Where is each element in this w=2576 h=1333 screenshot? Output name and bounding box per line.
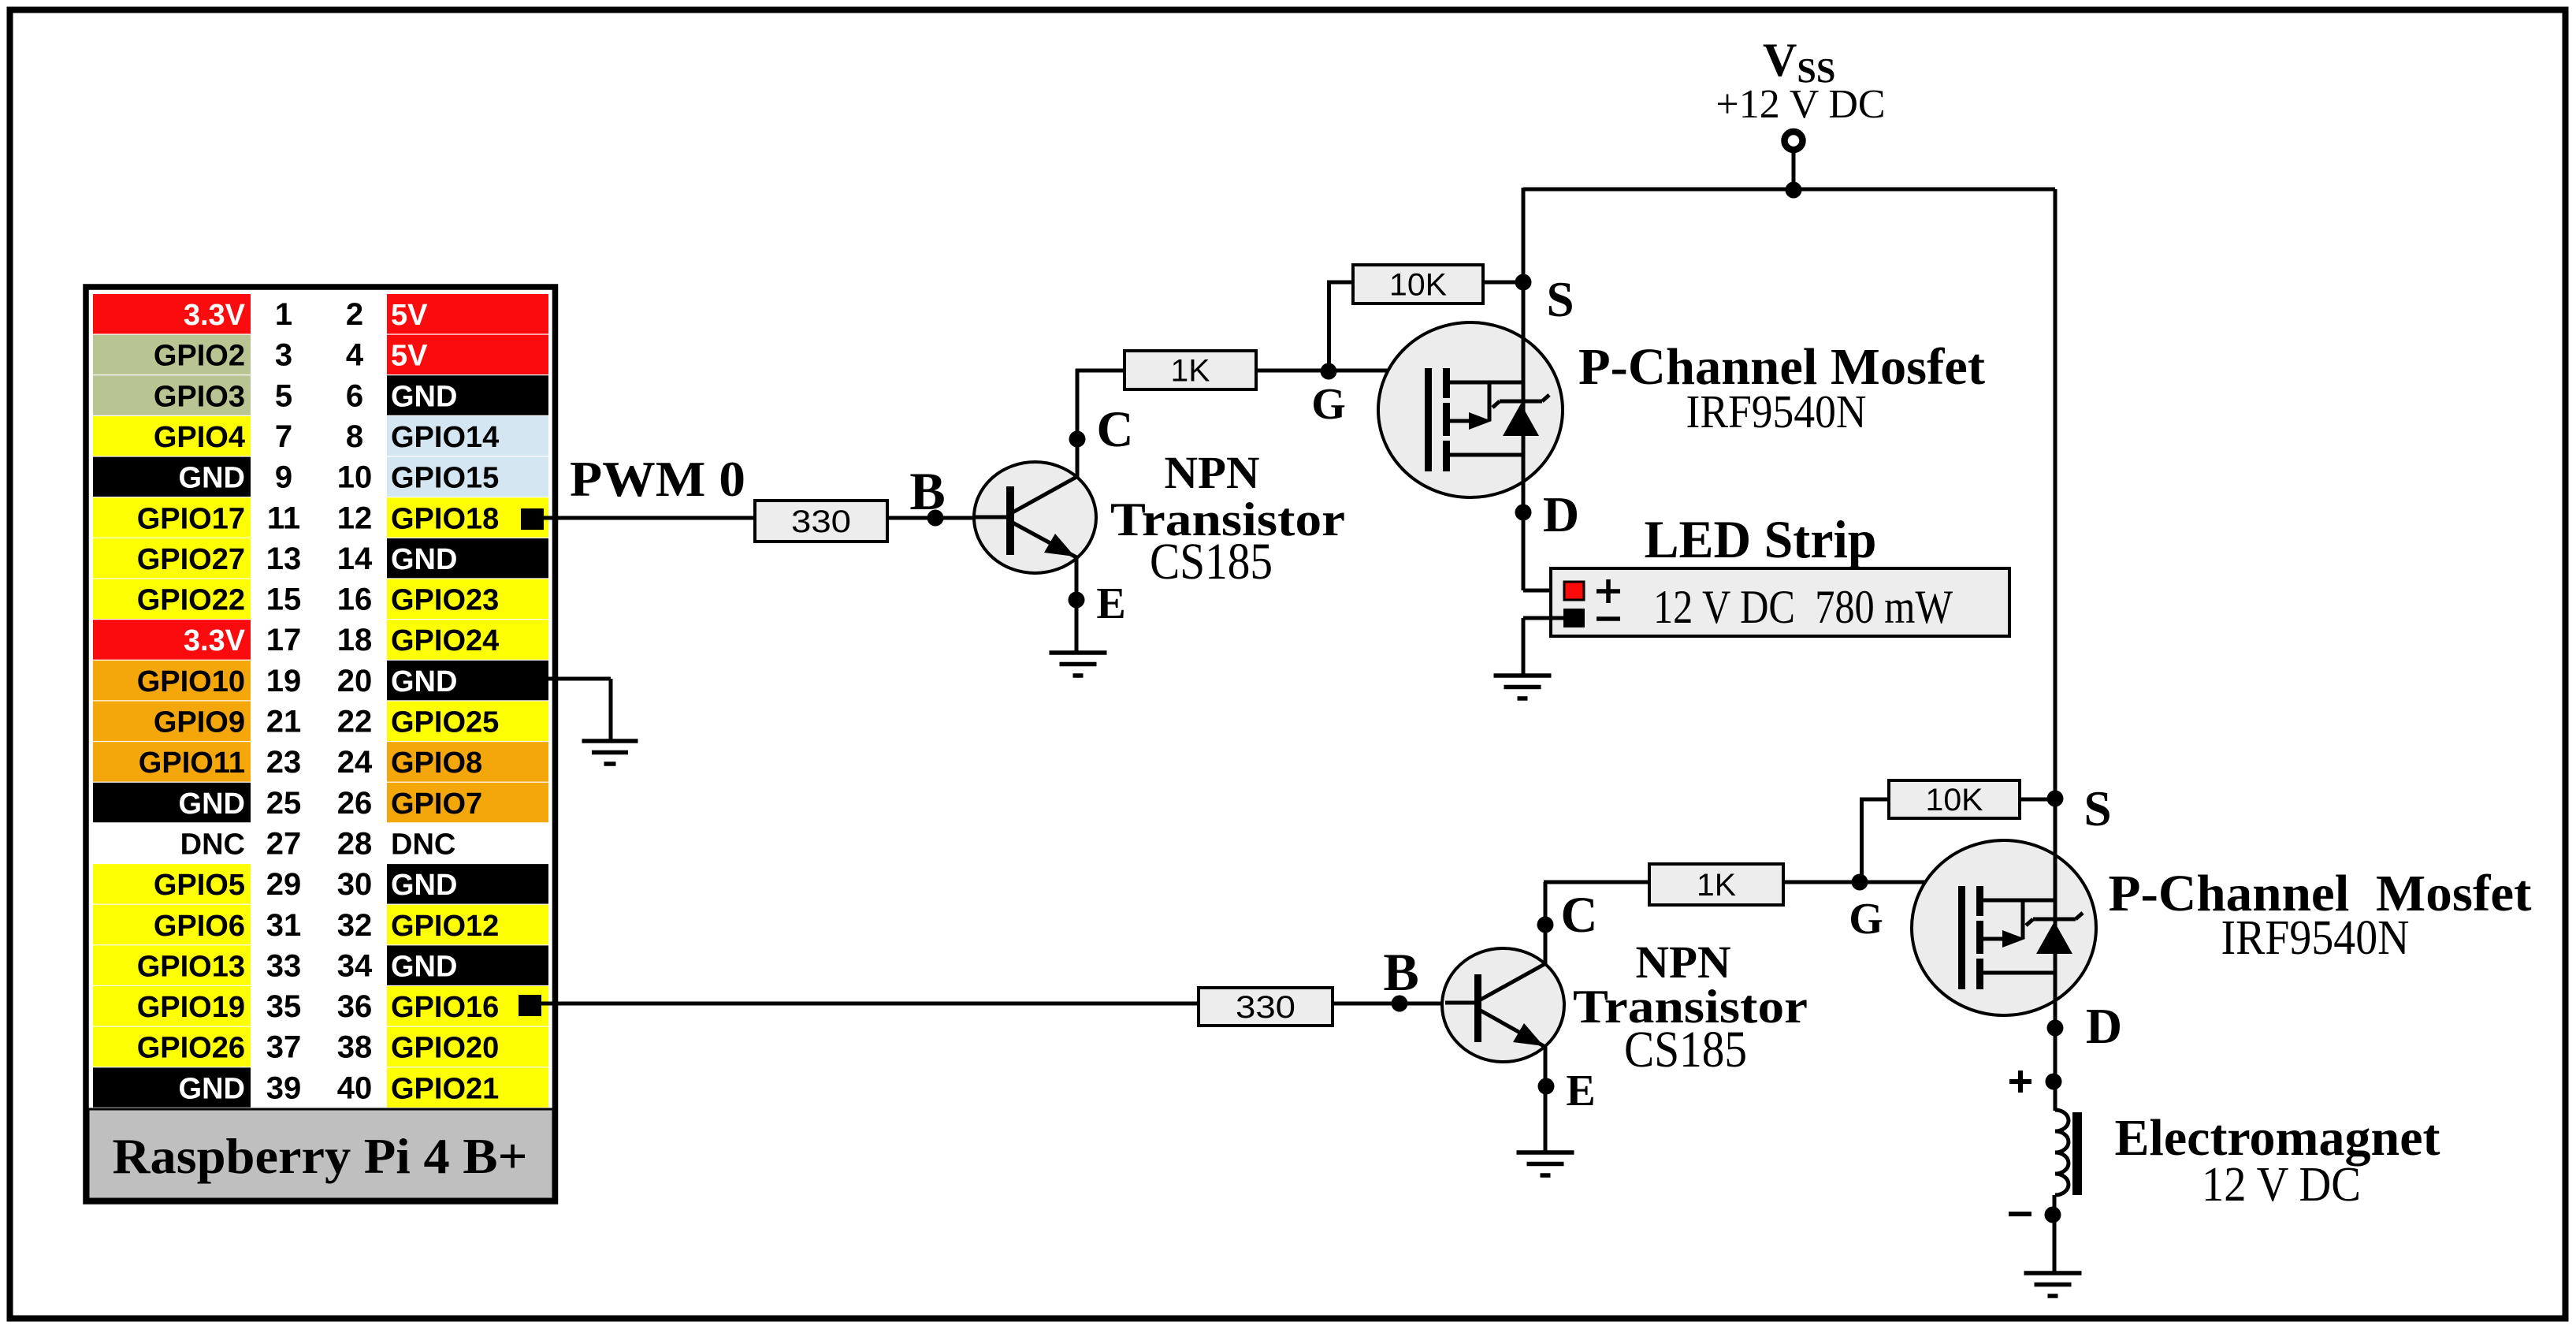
svg-text:1K: 1K bbox=[1697, 868, 1736, 903]
svg-text:2: 2 bbox=[346, 297, 363, 332]
svg-text:18: 18 bbox=[337, 623, 373, 657]
svg-text:PWM 0: PWM 0 bbox=[570, 451, 745, 507]
wire R6 to S2 bbox=[2020, 798, 2055, 802]
svg-text:33: 33 bbox=[266, 948, 302, 983]
svg-text:20: 20 bbox=[337, 664, 373, 698]
svg-text:GPIO15: GPIO15 bbox=[391, 462, 499, 495]
svg-text:C: C bbox=[1561, 887, 1598, 944]
svg-text:4: 4 bbox=[346, 338, 364, 373]
wire LED- to ground bbox=[1523, 616, 1563, 620]
svg-text:GND: GND bbox=[179, 462, 245, 495]
resistor R6 10K bbox=[1889, 780, 2020, 818]
svg-text:D: D bbox=[2086, 998, 2122, 1054]
svg-text:10: 10 bbox=[337, 460, 373, 495]
wire Q2 collector to R5 bbox=[1544, 882, 1548, 965]
node C2 bbox=[1537, 917, 1554, 933]
svg-text:5V: 5V bbox=[391, 340, 428, 373]
wire R3 to S1 bbox=[1483, 281, 1523, 285]
label + polarity electromagnet bbox=[2009, 1079, 2031, 1084]
svg-text:GPIO3: GPIO3 bbox=[154, 380, 245, 413]
ground Q2 emitter bbox=[1517, 1152, 1574, 1175]
svg-text:3.3V: 3.3V bbox=[184, 624, 246, 657]
svg-text:7: 7 bbox=[275, 419, 292, 454]
resistor R1 330 bbox=[755, 501, 887, 542]
svg-text:15: 15 bbox=[266, 583, 302, 617]
wire Q1 collector to R2 bbox=[1076, 369, 1080, 478]
svg-text:CS185: CS185 bbox=[1624, 1021, 1747, 1078]
svg-text:28: 28 bbox=[337, 826, 373, 861]
wire R2 to M1 gate bbox=[1256, 369, 1428, 373]
svg-text:GPIO18: GPIO18 bbox=[391, 502, 499, 535]
svg-text:5V: 5V bbox=[391, 299, 428, 332]
svg-text:G: G bbox=[1849, 895, 1883, 944]
node B1 junction bbox=[927, 510, 944, 527]
svg-text:17: 17 bbox=[266, 623, 302, 657]
svg-text:E: E bbox=[1096, 579, 1125, 628]
svg-text:GPIO27: GPIO27 bbox=[137, 543, 245, 576]
svg-text:GPIO19: GPIO19 bbox=[137, 991, 245, 1024]
resistor R2 1K bbox=[1124, 351, 1256, 389]
svg-text:GPIO22: GPIO22 bbox=[137, 584, 245, 617]
svg-text:36: 36 bbox=[337, 989, 373, 1024]
svg-text:GPIO4: GPIO4 bbox=[154, 421, 245, 454]
svg-text:19: 19 bbox=[266, 664, 302, 698]
svg-text:39: 39 bbox=[266, 1070, 302, 1105]
svg-text:G: G bbox=[1311, 380, 1346, 429]
Raspberry Pi 4 B+ GPIO header pin table bbox=[93, 294, 548, 1108]
svg-text:GPIO6: GPIO6 bbox=[154, 910, 245, 943]
svg-text:GPIO8: GPIO8 bbox=[391, 747, 482, 780]
wire pin12 to R1 bbox=[533, 516, 756, 520]
svg-text:DNC: DNC bbox=[391, 828, 455, 861]
wire S2-D2 main vertical bbox=[2054, 799, 2057, 1028]
svg-text:40: 40 bbox=[337, 1070, 373, 1105]
svg-text:DNC: DNC bbox=[180, 828, 245, 861]
svg-text:GPIO16: GPIO16 bbox=[391, 991, 499, 1024]
svg-text:GPIO10: GPIO10 bbox=[137, 665, 245, 698]
svg-text:S: S bbox=[2083, 781, 2111, 836]
svg-text:B: B bbox=[1383, 942, 1418, 1002]
svg-text:27: 27 bbox=[266, 826, 302, 861]
svg-text:GND: GND bbox=[391, 869, 457, 902]
LED strip - terminal pad bbox=[1563, 609, 1585, 627]
wire G1 up to R3 bbox=[1327, 282, 1331, 372]
P-channel MOSFET M1 IRF9540N bbox=[1378, 322, 1563, 497]
wire M1 gate entry bbox=[1426, 370, 1430, 371]
wire R1 to Q1 base bbox=[887, 516, 974, 520]
wire pin20 GND bbox=[547, 677, 611, 681]
svg-text:16: 16 bbox=[337, 583, 373, 617]
svg-text:12: 12 bbox=[337, 501, 373, 535]
wire Q2 emitter to ground bbox=[1544, 1047, 1548, 1152]
terminal Vss bbox=[1785, 132, 1803, 150]
svg-text:GND: GND bbox=[179, 788, 245, 821]
wire R5 to M2 gate bbox=[1782, 881, 1960, 884]
svg-text:32: 32 bbox=[337, 908, 373, 943]
svg-text:9: 9 bbox=[275, 460, 292, 495]
svg-text:GND: GND bbox=[391, 950, 457, 983]
svg-text:3: 3 bbox=[275, 338, 292, 373]
svg-text:B: B bbox=[909, 461, 945, 521]
svg-text:IRF9540N: IRF9540N bbox=[2221, 911, 2410, 965]
label LED - polarity bbox=[1597, 616, 1620, 621]
svg-text:GPIO11: GPIO11 bbox=[139, 747, 245, 780]
svg-text:GND: GND bbox=[391, 665, 457, 698]
svg-text:21: 21 bbox=[266, 705, 302, 739]
svg-text:10K: 10K bbox=[1389, 268, 1447, 303]
wire Vss stub bbox=[1792, 153, 1796, 190]
node electromagnet - junction bbox=[2045, 1207, 2061, 1223]
wire Vss top rail bbox=[1523, 188, 2055, 192]
node G1 junction bbox=[1321, 363, 1337, 380]
node E1 bbox=[1069, 592, 1085, 609]
svg-text:LED Strip: LED Strip bbox=[1645, 509, 1877, 569]
ground LED strip return bbox=[1494, 676, 1552, 698]
node S1 junction bbox=[1515, 274, 1532, 291]
transistor Q2 NPN CS185 bbox=[1442, 948, 1564, 1062]
svg-text:1: 1 bbox=[275, 297, 292, 332]
svg-text:D: D bbox=[1543, 486, 1579, 542]
svg-text:10K: 10K bbox=[1926, 783, 1983, 817]
svg-text:26: 26 bbox=[337, 786, 373, 821]
node S2 junction bbox=[2047, 791, 2064, 807]
svg-text:GND: GND bbox=[179, 1072, 245, 1105]
svg-text:GPIO12: GPIO12 bbox=[391, 910, 499, 943]
svg-text:8: 8 bbox=[346, 419, 363, 454]
label LED + polarity bbox=[1597, 589, 1620, 594]
pin 12 GPIO18 pad marker bbox=[521, 508, 544, 530]
node Vss junction bbox=[1786, 182, 1802, 199]
node G2 junction bbox=[1852, 874, 1868, 891]
svg-text:GPIO5: GPIO5 bbox=[154, 869, 245, 902]
svg-text:12 V DC 780 mW: 12 V DC 780 mW bbox=[1653, 581, 1953, 633]
P-channel MOSFET M2 IRF9540N bbox=[1912, 840, 2096, 1015]
svg-text:22: 22 bbox=[337, 705, 373, 739]
transistor Q1 NPN CS185 bbox=[974, 462, 1096, 573]
svg-text:23: 23 bbox=[266, 745, 302, 780]
svg-text:30: 30 bbox=[337, 867, 373, 902]
svg-text:S: S bbox=[1546, 272, 1574, 327]
svg-text:E: E bbox=[1566, 1067, 1595, 1115]
ground electromagnet return bbox=[2024, 1273, 2082, 1296]
svg-text:34: 34 bbox=[337, 948, 373, 983]
resistor R4 330 bbox=[1199, 988, 1333, 1026]
svg-text:330: 330 bbox=[1236, 990, 1295, 1025]
svg-text:GPIO25: GPIO25 bbox=[391, 706, 499, 739]
svg-text:GPIO2: GPIO2 bbox=[154, 340, 245, 373]
ground Raspberry Pi GND pin 20 bbox=[582, 741, 638, 764]
svg-text:13: 13 bbox=[266, 542, 302, 576]
node B2 junction bbox=[1392, 996, 1408, 1012]
label - polarity electromagnet bbox=[2009, 1212, 2031, 1216]
Raspberry Pi 4 B+ footer label bbox=[88, 1109, 553, 1199]
svg-text:GPIO24: GPIO24 bbox=[391, 624, 499, 657]
svg-text:37: 37 bbox=[266, 1030, 302, 1065]
svg-text:35: 35 bbox=[266, 989, 302, 1024]
svg-text:+12 V DC: +12 V DC bbox=[1715, 82, 1885, 127]
svg-text:3.3V: 3.3V bbox=[184, 299, 246, 332]
node D1 bbox=[1515, 505, 1532, 521]
pin 36 GPIO16 pad marker bbox=[519, 995, 541, 1016]
node D2 bbox=[2047, 1020, 2064, 1037]
wire R4 to Q2 base bbox=[1333, 1002, 1445, 1006]
svg-text:IRF9540N: IRF9540N bbox=[1686, 385, 1867, 438]
svg-text:Raspberry Pi 4 B+: Raspberry Pi 4 B+ bbox=[113, 1128, 528, 1184]
ground Q1 emitter bbox=[1050, 653, 1107, 676]
svg-text:C: C bbox=[1097, 401, 1134, 458]
svg-text:24: 24 bbox=[337, 745, 373, 780]
wire D1 to LED+ bbox=[1522, 512, 1526, 590]
svg-text:GPIO20: GPIO20 bbox=[391, 1032, 499, 1065]
wire G2 up to R6 bbox=[1860, 799, 1864, 884]
svg-text:GPIO21: GPIO21 bbox=[391, 1072, 499, 1105]
svg-text:GPIO9: GPIO9 bbox=[154, 706, 245, 739]
svg-text:GPIO23: GPIO23 bbox=[391, 584, 499, 617]
wire electromagnet - to ground bbox=[2053, 1195, 2057, 1273]
wire pin36 to R4 bbox=[530, 1002, 1201, 1006]
svg-text:1K: 1K bbox=[1171, 354, 1210, 389]
svg-text:330: 330 bbox=[791, 505, 851, 539]
svg-text:CS185: CS185 bbox=[1150, 533, 1273, 590]
node electromagnet + junction bbox=[2046, 1074, 2062, 1090]
svg-text:29: 29 bbox=[266, 867, 302, 902]
wire right rail to M2 bbox=[2054, 189, 2057, 799]
node E2 bbox=[1538, 1078, 1555, 1095]
svg-text:GND: GND bbox=[391, 380, 457, 413]
svg-text:GPIO14: GPIO14 bbox=[391, 421, 499, 454]
svg-text:GPIO17: GPIO17 bbox=[137, 502, 245, 535]
LED strip + terminal pad bbox=[1564, 582, 1584, 600]
svg-text:14: 14 bbox=[337, 542, 373, 576]
svg-text:GPIO7: GPIO7 bbox=[391, 788, 482, 821]
wire S1-D1 main vertical bbox=[1522, 188, 1526, 512]
GPIO header border bbox=[86, 287, 556, 1201]
wire Q1 emitter to ground bbox=[1075, 557, 1079, 653]
resistor R5 1K bbox=[1649, 864, 1783, 905]
svg-text:GPIO26: GPIO26 bbox=[137, 1032, 245, 1065]
resistor R3 10K bbox=[1353, 265, 1483, 303]
node C1 bbox=[1069, 431, 1086, 448]
svg-text:NPN: NPN bbox=[1165, 447, 1260, 498]
svg-text:12 V DC: 12 V DC bbox=[2202, 1158, 2361, 1212]
svg-text:6: 6 bbox=[346, 378, 363, 413]
svg-text:11: 11 bbox=[267, 501, 300, 535]
svg-text:31: 31 bbox=[266, 908, 302, 943]
svg-text:GND: GND bbox=[391, 543, 457, 576]
svg-text:5: 5 bbox=[275, 378, 292, 413]
wire D2 to electromagnet + bbox=[2054, 1028, 2057, 1111]
LED strip module LS1 bbox=[1551, 568, 2009, 636]
svg-text:38: 38 bbox=[337, 1030, 373, 1065]
svg-text:GPIO13: GPIO13 bbox=[137, 950, 245, 983]
svg-text:25: 25 bbox=[266, 786, 302, 821]
electromagnet L1 coil bbox=[2055, 1110, 2082, 1195]
